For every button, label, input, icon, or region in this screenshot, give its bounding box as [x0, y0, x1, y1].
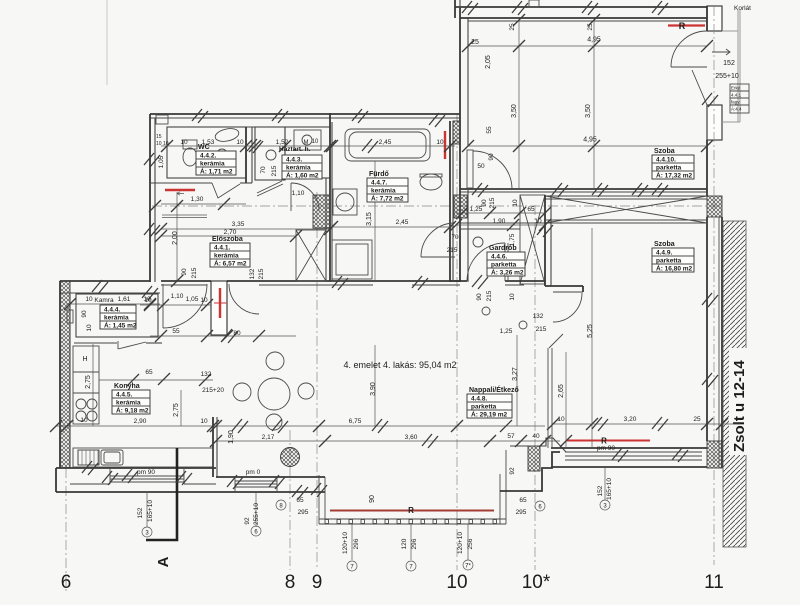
kitchen counter vertical [73, 346, 99, 424]
wall kitchen-nappali divider [212, 417, 214, 477]
svg-text:10: 10 [86, 324, 93, 332]
svg-text:Á: 9,18 m2: Á: 9,18 m2 [116, 406, 149, 415]
small arrow under red mark [177, 192, 184, 195]
svg-text:295: 295 [298, 509, 309, 516]
dim 5,25 v [591, 228, 593, 448]
svg-text:10: 10 [436, 139, 444, 146]
axis 8 line [289, 430, 291, 570]
wall szoba10 top outer [460, 17, 707, 19]
svg-text:215: 215 [191, 267, 198, 278]
right wall centerline [713, 6, 715, 200]
duct crosshatch right wall [707, 196, 722, 217]
svg-text:2,00: 2,00 [172, 231, 179, 245]
room kamra outline [76, 294, 158, 337]
svg-text:4.4.3.: 4.4.3. [286, 157, 302, 164]
svg-text:152: 152 [137, 507, 144, 518]
dim 3,27 v [516, 335, 518, 426]
dim line 1,25-65 [456, 212, 545, 214]
neighbour wall hatched [723, 221, 746, 547]
svg-text:kerámia: kerámia [116, 400, 141, 407]
red mark konyha stub [219, 288, 221, 318]
column crosshatch round [281, 448, 300, 467]
svg-text:Szoba: Szoba [654, 241, 675, 248]
dim 2,75 v1 [92, 344, 94, 426]
circle szoba9 dim2 [519, 321, 527, 329]
svg-text:255+10: 255+10 [715, 73, 739, 80]
svg-text:80: 80 [233, 330, 241, 337]
furdo sink [420, 174, 442, 190]
svg-text:Kamra: Kamra [94, 297, 114, 304]
svg-text:Előszoba: Előszoba [212, 236, 243, 243]
dim line 55-80 [150, 335, 296, 337]
svg-text:Á: 1,60 m2: Á: 1,60 m2 [286, 171, 319, 180]
svg-text:1,30: 1,30 [191, 196, 204, 203]
svg-text:215: 215 [447, 247, 458, 254]
svg-text:70: 70 [451, 234, 459, 241]
gardrob closet X [520, 195, 545, 284]
section marker A [146, 448, 177, 540]
stove circles [76, 399, 86, 409]
bay stepped wall [500, 452, 560, 491]
svg-text:4.4.6.: 4.4.6. [491, 254, 507, 261]
pillar right mid [707, 105, 722, 140]
svg-text:A: A [155, 556, 172, 567]
svg-text:57: 57 [507, 433, 515, 440]
washing machine [333, 189, 357, 215]
window szoba9 [565, 451, 702, 453]
svg-text:6,75: 6,75 [349, 418, 362, 425]
circled 3 [142, 527, 152, 537]
svg-text:92: 92 [509, 467, 516, 475]
svg-text:Á: 29,19 m2: Á: 29,19 m2 [471, 410, 508, 419]
fridge hatch [78, 450, 99, 465]
svg-text:152: 152 [723, 60, 735, 67]
svg-text:4.4.9.: 4.4.9. [656, 250, 672, 257]
wall kamra top outer [60, 280, 150, 282]
svg-text:10: 10 [312, 139, 319, 145]
svg-text:Nappali/Étkező: Nappali/Étkező [469, 385, 519, 394]
dim line 3,35 [161, 228, 332, 230]
circled 8 [276, 500, 286, 510]
svg-text:2,70: 2,70 [224, 229, 237, 236]
svg-text:132: 132 [201, 371, 212, 378]
wall corner left-bottom [55, 468, 57, 492]
wall szoba9 door top [545, 285, 583, 287]
svg-text:9: 9 [312, 572, 323, 593]
axis 10* line [534, 205, 536, 570]
svg-text:120+10: 120+10 [342, 532, 349, 554]
partition nappali-szoba9 window wall [547, 348, 549, 448]
svg-text:kerámia: kerámia [371, 188, 396, 195]
dim chain bottom [56, 425, 545, 427]
dim line wc row [161, 145, 455, 147]
svg-text:11: 11 [704, 572, 724, 593]
wall nappali bottom [216, 476, 325, 478]
svg-text:3,90: 3,90 [370, 382, 377, 396]
svg-text:1,05: 1,05 [186, 296, 199, 303]
svg-text:90: 90 [181, 268, 188, 276]
room WC outline [167, 127, 246, 178]
svg-text:55: 55 [486, 126, 493, 134]
svg-text:25: 25 [471, 39, 479, 46]
svg-text:10: 10 [557, 416, 565, 423]
entry arrow [712, 49, 730, 55]
red mark wc wall [165, 189, 195, 191]
svg-text:256: 256 [467, 538, 474, 549]
svg-text:25: 25 [693, 416, 701, 423]
dim line szoba10 v1 [518, 21, 520, 189]
svg-text:90: 90 [369, 495, 376, 503]
svg-text:296: 296 [353, 538, 360, 549]
door konyha arc [163, 284, 207, 328]
dim line kamra [66, 303, 160, 305]
svg-text:kerámia: kerámia [200, 161, 225, 168]
svg-text:kerámia: kerámia [214, 253, 239, 260]
door szoba10 arc [473, 151, 512, 189]
svg-text:1,90: 1,90 [228, 430, 235, 444]
wall szoba9 bottom outer2 [551, 466, 707, 468]
svg-text:10: 10 [143, 296, 151, 303]
svg-text:10: 10 [200, 297, 208, 304]
svg-text:2,17: 2,17 [262, 434, 275, 441]
bathtub [345, 129, 430, 161]
dim balcony v3 [467, 524, 469, 560]
axis 10 line [456, 115, 458, 570]
wall gardrob right inner [550, 195, 552, 286]
svg-text:H: H [82, 356, 87, 363]
kitchen counter bottom [73, 448, 213, 467]
pillar crosshatch right bottom [707, 441, 722, 468]
svg-text:2,75: 2,75 [173, 403, 180, 417]
svg-text:92: 92 [244, 517, 251, 525]
svg-text:Konyha: Konyha [114, 383, 140, 390]
svg-text:215+20: 215+20 [202, 387, 224, 394]
wall top-left inner [150, 117, 460, 119]
svg-text:65: 65 [527, 206, 535, 213]
svg-text:Á:4,4: Á:4,4 [731, 106, 742, 112]
wall wc bottom band [150, 182, 212, 184]
svg-text:25: 25 [509, 23, 516, 31]
svg-text:215: 215 [486, 290, 493, 301]
dim chain secondary [216, 440, 560, 442]
svg-text:7*: 7* [465, 564, 471, 570]
svg-text:90: 90 [476, 293, 483, 301]
svg-text:1,25: 1,25 [500, 328, 513, 335]
svg-text:Á: 1,71 m2: Á: 1,71 m2 [200, 167, 233, 176]
svg-text:4. emelet 4. lakás: 95,04 m2: 4. emelet 4. lakás: 95,04 m2 [343, 360, 456, 370]
red line R top [668, 24, 705, 26]
svg-text:Háztart. h.: Háztart. h. [279, 146, 311, 153]
svg-text:Korlát: Korlát [734, 5, 751, 12]
svg-text:152: 152 [597, 485, 604, 496]
balcony posts [325, 520, 329, 524]
sink kitchen [101, 450, 123, 465]
pillar right top [707, 6, 722, 31]
svg-text:40: 40 [532, 433, 540, 440]
red line R szoba9 [567, 440, 650, 442]
svg-text:1,52: 1,52 [276, 139, 289, 146]
svg-text:10: 10 [80, 417, 88, 424]
wall szoba9 right inner [706, 217, 708, 441]
lintel over kitchen door [162, 214, 207, 216]
svg-text:5,25: 5,25 [587, 324, 594, 338]
wall gardrob right outer [544, 195, 546, 286]
svg-text:4.4.10.: 4.4.10. [656, 157, 676, 164]
svg-text:165+10: 165+10 [147, 500, 154, 522]
svg-text:pm 90: pm 90 [137, 469, 155, 476]
svg-text:10*: 10* [522, 572, 551, 593]
svg-text:165+10: 165+10 [606, 478, 613, 500]
dim right v [604, 467, 606, 500]
svg-text:50: 50 [477, 163, 485, 170]
dim line szoba10 mid [468, 145, 707, 147]
svg-text:kerámia: kerámia [104, 315, 129, 322]
shower tray [332, 240, 372, 279]
svg-text:1,10: 1,10 [292, 190, 305, 197]
svg-text:10: 10 [512, 199, 519, 207]
svg-text:8: 8 [285, 572, 296, 593]
dim line 2,45 [332, 226, 455, 228]
svg-text:Á: 16,80 m2: Á: 16,80 m2 [656, 264, 693, 273]
svg-text:2,90: 2,90 [134, 418, 147, 425]
closet X eloszoba [296, 230, 326, 281]
door WC leaf [212, 183, 240, 198]
circled 7 [347, 561, 357, 571]
wall top-left outer [150, 113, 460, 115]
svg-text:4.4.7.: 4.4.7. [371, 180, 387, 187]
dim line 1,90-10 [456, 224, 545, 226]
svg-text:Á: 17,32 m2: Á: 17,32 m2 [656, 171, 693, 180]
circle szoba9 dim [482, 307, 490, 315]
dining table circles [258, 378, 290, 410]
horizontal axis line [152, 205, 722, 207]
door eloszoba-nappali arc [229, 284, 259, 314]
svg-text:295: 295 [516, 509, 527, 516]
svg-text:parketta: parketta [656, 258, 682, 265]
svg-text:pm 0: pm 0 [246, 469, 261, 476]
dim 2,75 v2 [180, 390, 182, 426]
svg-text:3,20: 3,20 [624, 416, 637, 423]
svg-text:120: 120 [401, 538, 408, 549]
svg-text:Erké: Erké [731, 86, 741, 91]
wall south outer [56, 491, 325, 493]
svg-text:4.4.4.: 4.4.4. [104, 307, 120, 314]
wall eloszoba bottom left [161, 280, 211, 282]
circle vestibule [266, 150, 276, 160]
svg-text:90: 90 [81, 310, 88, 318]
svg-text:3,15: 3,15 [366, 212, 373, 226]
dim line 3,15 v [374, 161, 376, 281]
svg-text:parketta: parketta [491, 262, 517, 269]
door gardrob leaf [504, 243, 506, 281]
door szoba10 leaf [467, 150, 473, 188]
svg-text:1,90: 1,90 [493, 218, 506, 225]
svg-text:132: 132 [249, 268, 256, 279]
svg-text:65: 65 [145, 369, 153, 376]
room vestibule outline [255, 127, 285, 180]
wardrobe X brace [545, 196, 707, 223]
circled 6 [251, 526, 261, 536]
svg-text:132: 132 [533, 313, 544, 320]
svg-text:Fürdő: Fürdő [369, 171, 389, 178]
dim balcony v1 [351, 524, 353, 560]
svg-text:R: R [679, 21, 686, 31]
wall stub with red mark [211, 281, 227, 335]
svg-text:3,27: 3,27 [512, 367, 519, 381]
svg-text:3,50: 3,50 [511, 104, 518, 118]
svg-text:fagy.: fagy. [731, 100, 740, 105]
svg-text:6: 6 [61, 572, 72, 593]
svg-text:Szoba: Szoba [654, 148, 675, 155]
wall kitchen bottom outer [56, 467, 216, 469]
svg-text:10: 10 [236, 139, 244, 146]
red line balcony R [330, 510, 494, 512]
dim 2,00 v [176, 192, 178, 281]
dim left v [146, 492, 148, 527]
svg-text:70: 70 [260, 166, 267, 174]
wall gardrob top inner [460, 228, 520, 230]
erkely mini label box [730, 84, 749, 113]
wall gardrob bottom right [505, 280, 545, 282]
svg-text:kerámia: kerámia [286, 165, 311, 172]
svg-text:WC: WC [198, 144, 210, 151]
svg-text:25: 25 [587, 23, 594, 31]
svg-text:10: 10 [446, 572, 467, 593]
wc toilet [183, 140, 197, 149]
svg-text:10: 10 [534, 218, 542, 225]
door kamra leaf [118, 342, 146, 349]
wall szoba10 bottom [460, 188, 707, 190]
svg-text:296: 296 [411, 538, 418, 549]
svg-text:3,50: 3,50 [585, 104, 592, 118]
svg-text:Zsolt u 12-14: Zsolt u 12-14 [731, 360, 748, 452]
door vestibule leaf [257, 184, 283, 196]
svg-text:10: 10 [180, 139, 188, 146]
wc basin [214, 127, 240, 144]
wall wc right [245, 127, 247, 183]
svg-text:90: 90 [481, 199, 488, 207]
room furdo outline [331, 122, 333, 281]
svg-text:3,60: 3,60 [405, 434, 418, 441]
svg-text:4.4.2.: 4.4.2. [200, 153, 216, 160]
svg-text:4.4.8.: 4.4.8. [471, 396, 487, 403]
wall szoba10 top inner [468, 20, 707, 22]
svg-text:4,95: 4,95 [587, 37, 601, 44]
svg-text:Á: 3,26 m2: Á: 3,26 m2 [491, 268, 524, 277]
dim chain bottom right [553, 423, 740, 425]
dim 2,65 v [565, 352, 567, 448]
svg-text:1,61: 1,61 [118, 296, 131, 303]
wall szoba10 left inner lower [467, 190, 469, 282]
svg-text:Á: 1,45 m2: Á: 1,45 m2 [104, 321, 137, 330]
dim left v2 [255, 492, 257, 527]
svg-text:10: 10 [509, 293, 516, 301]
svg-text:Á: 7,72 m2: Á: 7,72 m2 [371, 194, 404, 203]
svg-text:215: 215 [258, 268, 265, 279]
balcony top edge line [455, 6, 707, 8]
dim line 1,30 [161, 203, 246, 205]
pillar crosshatch bay [528, 446, 540, 471]
door szoba9 arc [553, 293, 582, 322]
wall left inner [154, 118, 156, 282]
pilaster box top-left [156, 115, 168, 124]
svg-text:4.4.1.: 4.4.1. [214, 245, 230, 252]
dim 3,90 v [374, 345, 376, 426]
wall right insulation line [718, 217, 720, 468]
balcony outline [318, 475, 320, 524]
kamra bottom wall lines [74, 342, 117, 344]
haztart machine [294, 130, 321, 150]
wall left exterior hatched [60, 281, 70, 468]
axis 11 line [713, 200, 715, 565]
svg-text:120+10: 120+10 [457, 532, 464, 554]
circled 6 [535, 501, 545, 511]
svg-text:215: 215 [271, 165, 278, 176]
drain circle wc [217, 149, 227, 159]
svg-text:65: 65 [519, 497, 527, 504]
svg-text:10: 10 [200, 418, 208, 425]
wall gardrob top [460, 222, 545, 224]
door gardrob arc [467, 243, 505, 281]
wall corridor-szoba10 left outer [459, 8, 461, 282]
room haztart outline [285, 127, 330, 178]
svg-text:2,65: 2,65 [558, 384, 565, 398]
duct crosshatch corridor [454, 195, 467, 218]
svg-text:1,05: 1,05 [158, 155, 165, 168]
svg-text:Gardrób: Gardrób [489, 245, 517, 252]
circled 7 [406, 561, 416, 571]
svg-text:parketta: parketta [471, 404, 497, 411]
svg-text:2,75: 2,75 [85, 375, 92, 389]
wall eloszoba bottom [227, 280, 460, 282]
red mark furdo right [444, 131, 446, 159]
svg-text:2,05: 2,05 [485, 55, 492, 69]
svg-text:4.4.1: 4.4.1 [731, 93, 742, 98]
dim line szoba10 v2 [593, 21, 595, 189]
dim balcony v2 [410, 524, 412, 560]
circle gardrob dim [473, 237, 483, 247]
window kitchen pm90 [110, 475, 184, 477]
svg-text:215: 215 [536, 326, 547, 333]
svg-text:15: 15 [156, 134, 162, 140]
door corridor-gardrob arc [421, 223, 455, 257]
small box on left wall [67, 310, 73, 323]
wall top-left furring line [167, 126, 330, 128]
svg-text:10: 10 [85, 296, 93, 303]
dim line szoba10 top [468, 45, 707, 47]
wardrobe band szoba9 top [545, 195, 707, 197]
wall szoba9 bottom outer [551, 447, 707, 449]
balcony floor line right [722, 121, 740, 123]
duct crosshatch furdo top right [453, 121, 460, 144]
svg-text:55: 55 [172, 328, 180, 335]
wall furdo right [449, 121, 451, 281]
circled 7* [463, 560, 473, 570]
svg-text:3,35: 3,35 [232, 221, 245, 228]
door furdo arc [291, 183, 319, 211]
svg-text:255+10: 255+10 [253, 503, 260, 525]
wall haztart-furdo [329, 113, 331, 281]
scan artifact line [106, 0, 108, 85]
wall right outer [721, 217, 723, 468]
svg-text:90: 90 [488, 153, 495, 161]
svg-text:1,10: 1,10 [171, 293, 184, 300]
svg-text:65: 65 [296, 497, 304, 504]
wall szoba10 left inner upper [467, 18, 469, 146]
circled 3 [600, 500, 610, 510]
svg-text:2,45: 2,45 [379, 139, 392, 146]
svg-text:4.4.5.: 4.4.5. [116, 392, 132, 399]
